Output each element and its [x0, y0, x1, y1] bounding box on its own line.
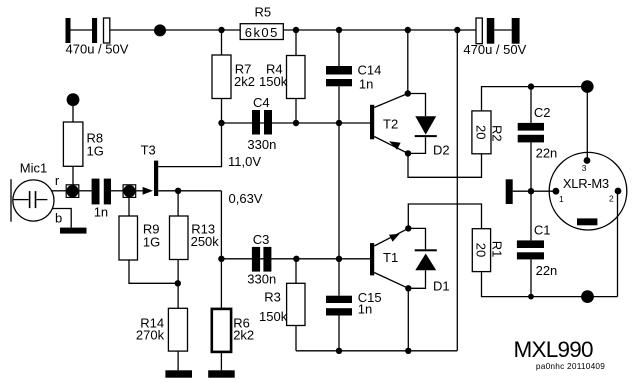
node output terminal dot [581, 290, 594, 303]
node R8 top terminal dot [67, 93, 80, 106]
svg-text:R5: R5 [255, 5, 272, 20]
wire pad2 to T3 gate [136, 190, 144, 192]
wire T1 collector to bottom rail [407, 288, 409, 351]
capacitor C4 [247, 95, 276, 152]
svg-text:1G: 1G [87, 144, 104, 159]
capacitor C16 470u/50V (left electrolytic) [66, 18, 129, 57]
junction C4 node R4 [293, 120, 299, 126]
ground mic body [60, 228, 87, 234]
svg-text:XLR-M3: XLR-M3 [563, 176, 609, 191]
wire R2 top [482, 87, 588, 111]
wire T1 emitter node to D1 top [408, 228, 425, 249]
junction output bottom C1 [528, 294, 534, 300]
node pin3 net terminal dot [581, 80, 594, 93]
junction rail C14 [336, 27, 342, 33]
svg-text:1: 1 [559, 194, 564, 204]
svg-text:1G: 1G [143, 235, 160, 250]
resistor R2 [472, 111, 505, 154]
wire R13 top [177, 191, 179, 216]
wire R6 to ground [220, 353, 222, 371]
wire R8 bottom to pad [72, 166, 74, 185]
svg-text:150k: 150k [259, 309, 288, 324]
microphone Mic1 [11, 161, 54, 222]
resistor R13 [170, 216, 220, 260]
ground R6 [208, 370, 235, 377]
svg-text:D2: D2 [433, 143, 450, 158]
ground terminal bar (XLR shield) [506, 179, 513, 204]
svg-text:20: 20 [474, 243, 489, 257]
wire bottom rail [296, 350, 457, 352]
junction rail R4 [293, 27, 299, 33]
svg-text:3: 3 [582, 163, 587, 173]
resistor R1 [472, 229, 504, 272]
svg-text:C3: C3 [253, 232, 270, 247]
junction rail right cap [454, 27, 460, 33]
svg-text:C2: C2 [534, 105, 551, 120]
wire mic b to ground [52, 209, 71, 228]
svg-text:150k: 150k [259, 74, 288, 89]
wire D1 bottom to T1 collector node [408, 270, 425, 288]
wire R7 top [221, 30, 223, 55]
wire R1 bottom to output net [482, 272, 618, 297]
junction T1 base node [336, 256, 342, 262]
svg-text:6k05: 6k05 [245, 25, 277, 40]
junction bottom rail T1 [405, 348, 411, 354]
junction T1 emitter node [405, 225, 411, 231]
svg-text:2k2: 2k2 [234, 74, 255, 89]
wire right rail segment after cap [494, 29, 511, 31]
svg-text:270k: 270k [136, 328, 165, 343]
wire C2 top [530, 87, 532, 123]
node pad gate [123, 185, 136, 198]
svg-text:C1: C1 [534, 223, 551, 238]
resistor R5 [240, 5, 283, 40]
wire R14 to ground [177, 351, 179, 370]
capacitor C3 [247, 232, 276, 287]
wire C14 bottom [338, 86, 340, 123]
wire T2 emitter node to R2 bottom [408, 153, 482, 177]
junction T2 collector node [405, 90, 411, 96]
resistor R8 [63, 122, 103, 166]
capacitor C17 470u/50V (right electrolytic) [463, 18, 526, 57]
wire left cap internal segment [71, 29, 93, 31]
junction R9/R13 node [175, 280, 181, 286]
pin 2 [609, 188, 621, 204]
svg-text:r: r [55, 173, 60, 188]
resistor R4 [259, 56, 305, 99]
junction C3 node R6 [218, 256, 224, 262]
wire R7 bottom to drain bend [158, 99, 221, 167]
wire T2 collector to D2 top [408, 94, 426, 117]
wire R9 bottom joining R13 column [129, 260, 178, 283]
pin 3 [582, 157, 591, 173]
svg-text:22n: 22n [536, 146, 558, 161]
svg-text:0,63V: 0,63V [229, 191, 263, 206]
wire R4 top [295, 30, 297, 56]
wire R3 bottom [295, 326, 297, 351]
wire C 1n to pad2 [111, 190, 123, 192]
junction C2 top [528, 83, 534, 89]
svg-text:330n: 330n [247, 137, 276, 152]
junction T3 source R13 [175, 188, 181, 194]
wire T3 source line [158, 190, 221, 192]
svg-text:T1: T1 [383, 250, 398, 265]
resistor R14 [136, 308, 188, 351]
wire R13 bottom to R14 [177, 260, 179, 309]
node pad r [66, 185, 79, 198]
svg-text:20: 20 [474, 125, 489, 139]
svg-text:D1: D1 [433, 279, 450, 294]
capacitor C1 [517, 223, 557, 279]
pin 1 [553, 188, 565, 204]
svg-text:MXL990: MXL990 [514, 337, 594, 362]
svg-text:1n: 1n [358, 302, 372, 317]
wire T2 collector column to rail [407, 30, 409, 94]
wire C2 bottom to C1 top [530, 142, 532, 240]
svg-text:250k: 250k [191, 234, 220, 249]
svg-text:Mic1: Mic1 [20, 161, 47, 176]
svg-text:22n: 22n [536, 263, 558, 278]
resistor R3 [259, 283, 305, 325]
diode D1 [415, 249, 450, 293]
junction C4 node C14 [336, 120, 342, 126]
transistor T2 [370, 94, 408, 154]
capacitor C15 [326, 290, 382, 317]
resistor R9 [119, 216, 160, 260]
svg-text:11,0V: 11,0V [228, 154, 261, 169]
ground R14 [165, 370, 192, 377]
wire pad2 down to R9 [128, 197, 130, 216]
wire XLR pin2 down [617, 191, 619, 297]
svg-text:T2: T2 [383, 117, 398, 132]
wire XLR pin3 from node [586, 87, 588, 161]
junction C3 node R3 [293, 256, 299, 262]
svg-text:pa0nhc 20110409: pa0nhc 20110409 [536, 361, 605, 371]
svg-text:1n: 1n [359, 77, 373, 92]
wire C15 bottom [338, 316, 340, 351]
wire right long column [456, 30, 458, 351]
svg-text:b: b [55, 211, 62, 226]
svg-text:1n: 1n [94, 205, 108, 220]
node supply terminal dot [154, 24, 166, 36]
resistor R7 [212, 55, 255, 99]
transistor T1 [370, 228, 408, 288]
svg-text:470u / 50V: 470u / 50V [66, 42, 129, 57]
svg-text:C4: C4 [253, 95, 270, 110]
junction C1/C2 midpoint pin1 net [528, 188, 534, 194]
wire top supply rail [110, 29, 476, 31]
wire R6 top [220, 259, 222, 309]
capacitor C2 [518, 105, 558, 161]
wire base interconnect column [338, 123, 340, 259]
junction rail T2 column [405, 27, 411, 33]
junction bottom rail C15 [336, 348, 342, 354]
svg-text:330n: 330n [247, 272, 276, 287]
svg-text:R1: R1 [489, 241, 504, 258]
junction T2 emitter node [405, 150, 411, 156]
wire T1 emitter node to R1 top [408, 204, 481, 229]
svg-text:T3: T3 [141, 142, 156, 157]
wire R4 bottom [295, 99, 297, 124]
wire source bend down to C3 [220, 191, 222, 259]
svg-text:2: 2 [609, 194, 614, 204]
svg-text:470u / 50V: 470u / 50V [463, 42, 526, 57]
wire ground terminal to XLR pin1 [513, 190, 556, 192]
resistor R6 [212, 309, 254, 352]
wire mic r to pad1 [51, 190, 66, 192]
capacitor 1n coupling [92, 179, 111, 220]
svg-text:C14: C14 [358, 63, 382, 78]
svg-text:R2: R2 [490, 125, 505, 142]
capacitor C14 [326, 63, 381, 92]
wire R8 top terminal [72, 103, 74, 122]
transistor T3 (JFET) [141, 142, 159, 196]
wire C14 top [338, 30, 340, 66]
svg-text:2k2: 2k2 [233, 328, 254, 343]
wire T1 base line / C3 node [221, 258, 370, 260]
wire R3 top [295, 259, 297, 284]
connector XLR-M3 [549, 152, 627, 230]
diode D2 [415, 116, 450, 157]
junction C4 node R7 [218, 120, 224, 126]
junction T1 collector node [405, 285, 411, 291]
svg-text:R3: R3 [264, 290, 281, 305]
junction rail R7 [218, 27, 224, 33]
wire D2 bottom to T2 emitter node [408, 137, 426, 153]
wire pad1 to C 1n [79, 190, 92, 192]
wire C1 bottom [530, 259, 532, 296]
wire T2 base line / C4 node [222, 122, 371, 124]
wire C15 top [338, 259, 340, 296]
